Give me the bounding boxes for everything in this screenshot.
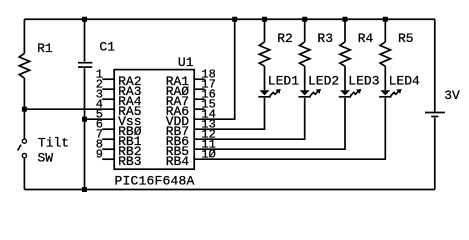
wire R3 to LED2 xyxy=(304,66,306,90)
svg-text:R5: R5 xyxy=(398,31,414,46)
battery 3V positive plate xyxy=(425,112,445,114)
node C1 top junction xyxy=(82,17,87,22)
pin 15 stub xyxy=(194,108,204,110)
node bottom rail junction xyxy=(82,187,87,192)
LED LED4 xyxy=(380,90,390,95)
node Vss junction xyxy=(82,117,87,122)
pin 6 stub xyxy=(102,128,114,130)
svg-text:LED4: LED4 xyxy=(389,74,420,89)
switch Tilt SW xyxy=(22,139,26,143)
svg-text:PIC16F648A: PIC16F648A xyxy=(115,173,195,188)
LED LED2 xyxy=(300,90,310,95)
svg-text:R1: R1 xyxy=(37,41,53,56)
pin 7 stub xyxy=(102,138,114,140)
svg-text:3V: 3V xyxy=(444,88,460,103)
pin 1 stub xyxy=(102,78,114,80)
svg-text:U1: U1 xyxy=(178,55,194,70)
node RA5 junction xyxy=(22,107,27,112)
wire LED3 to pin 11 xyxy=(194,98,345,149)
svg-text:R4: R4 xyxy=(358,31,374,46)
node R3 top junction xyxy=(302,17,307,22)
resistor R3 xyxy=(300,42,310,66)
node R2 top junction xyxy=(262,17,267,22)
wire LED4 to pin 10 xyxy=(194,98,385,159)
pin 2 stub xyxy=(102,88,114,90)
wire LED2 to pin 12 xyxy=(194,98,305,139)
svg-text:9: 9 xyxy=(96,148,103,162)
resistor R2 xyxy=(259,42,269,66)
pin 18 stub xyxy=(194,78,204,80)
wire left rail upper xyxy=(23,19,25,53)
LED LED1 xyxy=(260,90,270,95)
svg-text:R2: R2 xyxy=(277,31,293,46)
wire VDD vertical xyxy=(194,19,235,119)
svg-text:C1: C1 xyxy=(99,39,115,54)
wire LED1 to pin 13 xyxy=(194,98,264,129)
wire Vss to pin 5 xyxy=(85,118,115,120)
wire R2 top lead xyxy=(264,19,266,42)
wire left rail lower xyxy=(23,158,25,189)
pin 9 stub xyxy=(102,158,114,160)
resistor R1 xyxy=(19,53,29,78)
wire R5 to LED4 xyxy=(384,66,386,90)
LED LED3 xyxy=(340,90,350,95)
svg-text:R3: R3 xyxy=(317,31,333,46)
resistor R4 xyxy=(340,42,350,66)
svg-text:LED2: LED2 xyxy=(308,74,339,89)
resistor R5 xyxy=(380,42,390,66)
svg-text:Tilt: Tilt xyxy=(38,136,69,151)
wire R2 to LED1 xyxy=(264,66,266,90)
wire R5 top lead xyxy=(384,19,386,42)
wire R4 top lead xyxy=(344,19,346,42)
wire R4 to LED3 xyxy=(344,66,346,90)
wire top rail xyxy=(24,18,434,20)
pin 8 stub xyxy=(102,148,114,150)
wire R3 top lead xyxy=(304,19,306,42)
svg-text:RB3: RB3 xyxy=(118,154,141,169)
IC U1 PIC16F648A chip body xyxy=(114,70,194,170)
wire RA5 to pin 4 xyxy=(24,108,114,110)
svg-text:LED1: LED1 xyxy=(268,74,299,89)
wire bottom rail xyxy=(24,189,434,191)
svg-text:SW: SW xyxy=(38,150,54,165)
wire battery top lead xyxy=(434,19,436,111)
battery 3V negative plate xyxy=(431,116,438,118)
pin 16 stub xyxy=(194,98,204,100)
wire left rail mid xyxy=(23,78,25,138)
wire battery bottom lead xyxy=(434,118,436,190)
node VDD top junction xyxy=(232,17,237,22)
pin 17 stub xyxy=(194,88,204,90)
node R5 top junction xyxy=(383,17,388,22)
svg-text:LED3: LED3 xyxy=(348,74,379,89)
pin 3 stub xyxy=(102,98,114,100)
capacitor C1 xyxy=(84,19,86,61)
node R4 top junction xyxy=(343,17,348,22)
svg-text:RB4: RB4 xyxy=(166,154,190,169)
